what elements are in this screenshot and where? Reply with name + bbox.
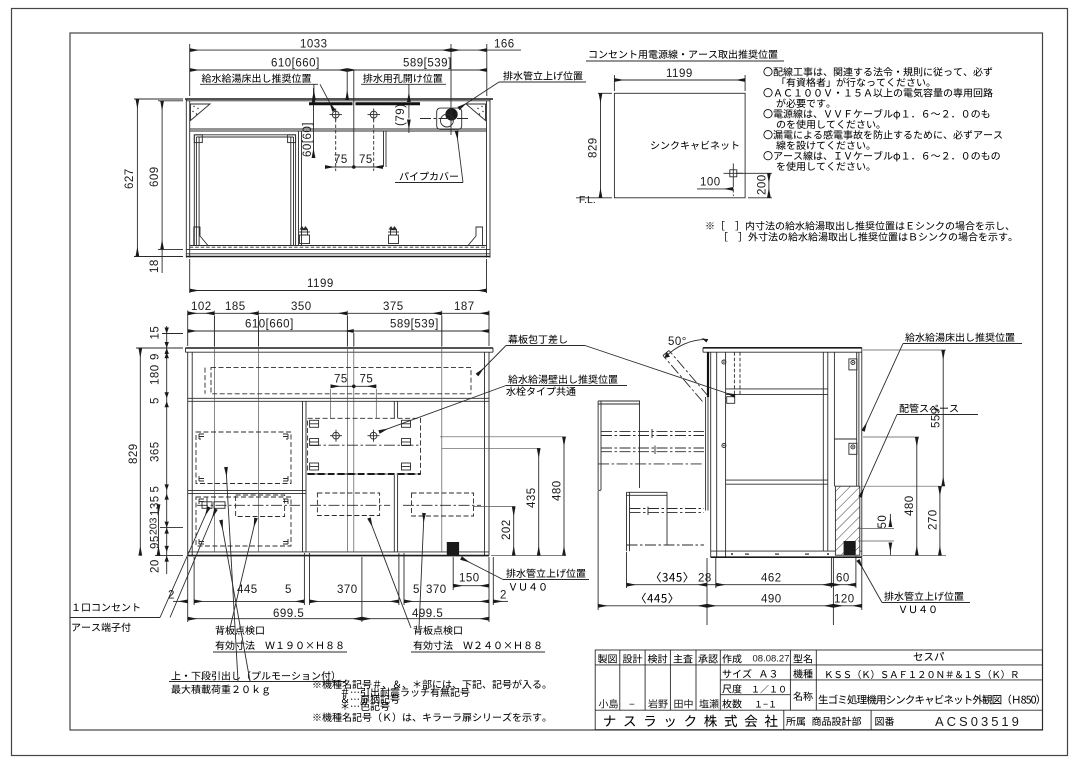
svg-text:5: 5 — [413, 584, 420, 596]
svg-text:610[660]: 610[660] — [271, 58, 320, 70]
svg-text:435: 435 — [526, 487, 538, 508]
svg-text:1199: 1199 — [666, 68, 693, 80]
svg-text:203: 203 — [148, 517, 160, 535]
svg-text:135: 135 — [150, 495, 162, 516]
svg-text:350: 350 — [291, 301, 312, 313]
svg-text:50: 50 — [877, 515, 889, 529]
svg-text:60[60]: 60[60] — [302, 122, 314, 157]
svg-text:5: 5 — [150, 486, 162, 493]
svg-text:08.08.27: 08.08.27 — [753, 654, 790, 665]
svg-text:829: 829 — [128, 443, 140, 464]
svg-text:1033: 1033 — [300, 39, 328, 51]
svg-text:187: 187 — [454, 301, 475, 313]
svg-text:370: 370 — [337, 584, 358, 596]
svg-text:829: 829 — [588, 137, 600, 158]
svg-text:50°: 50° — [668, 336, 687, 348]
svg-text:2: 2 — [500, 590, 507, 602]
svg-text:559: 559 — [931, 407, 943, 428]
svg-text:589[539]: 589[539] — [403, 58, 452, 70]
svg-text:9: 9 — [150, 353, 162, 360]
svg-text:185: 185 — [225, 301, 246, 313]
svg-text:28: 28 — [698, 573, 712, 585]
svg-text:75: 75 — [359, 154, 373, 166]
svg-text:(79): (79) — [395, 104, 407, 126]
svg-text:120: 120 — [834, 594, 855, 606]
svg-text:627: 627 — [124, 168, 136, 189]
svg-text:20: 20 — [150, 559, 162, 573]
svg-text:610[660]: 610[660] — [245, 319, 294, 331]
svg-text:480: 480 — [904, 495, 916, 516]
svg-text:ACS03519: ACS03519 — [935, 714, 1022, 729]
svg-text:5: 5 — [285, 584, 292, 596]
svg-text:370: 370 — [426, 584, 447, 596]
svg-text:95: 95 — [150, 535, 162, 549]
svg-text:462: 462 — [761, 573, 782, 585]
svg-text:18: 18 — [149, 259, 161, 273]
svg-text:60: 60 — [836, 573, 850, 585]
svg-text:480: 480 — [552, 480, 564, 501]
svg-text:499.5: 499.5 — [412, 608, 443, 620]
svg-text:180: 180 — [150, 364, 162, 385]
svg-text:150: 150 — [459, 573, 480, 585]
svg-text:75: 75 — [334, 154, 348, 166]
svg-text:5: 5 — [150, 397, 162, 404]
svg-text:365: 365 — [150, 441, 162, 462]
svg-text:490: 490 — [761, 594, 782, 606]
svg-text:−: − — [629, 700, 635, 711]
svg-text:589[539]: 589[539] — [390, 319, 439, 331]
svg-text:F.L.: F.L. — [579, 194, 596, 206]
svg-text:375: 375 — [383, 301, 404, 313]
svg-text:200: 200 — [757, 174, 769, 195]
svg-text:1199: 1199 — [307, 278, 334, 290]
svg-text:102: 102 — [191, 301, 212, 313]
svg-text:100: 100 — [700, 177, 721, 189]
svg-text:609: 609 — [149, 166, 161, 187]
svg-text:15: 15 — [150, 326, 162, 340]
svg-text:202: 202 — [501, 519, 513, 540]
svg-text:75: 75 — [360, 374, 374, 386]
svg-text:270: 270 — [928, 509, 940, 530]
svg-text:75: 75 — [334, 374, 348, 386]
svg-text:166: 166 — [494, 39, 515, 51]
svg-text:699.5: 699.5 — [273, 608, 304, 620]
